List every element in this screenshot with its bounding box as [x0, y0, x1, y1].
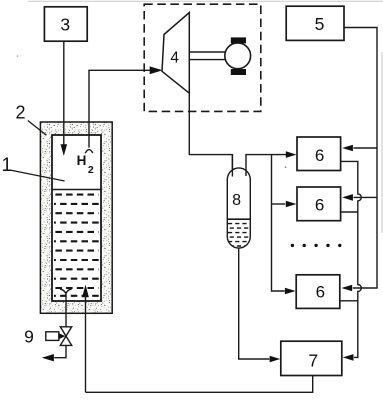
- svg-text:9: 9: [24, 326, 34, 346]
- leader line for 2: [28, 121, 47, 136]
- box 7: [281, 341, 342, 375]
- turbine 4 (trapezoid): [162, 13, 189, 94]
- drain funnel in tank: [60, 289, 72, 294]
- svg-text:2: 2: [88, 164, 94, 176]
- svg-text:6: 6: [316, 283, 325, 302]
- svg-text:4: 4: [170, 49, 179, 66]
- generator brush bottom: [231, 69, 246, 75]
- arrow into turbine: [150, 66, 163, 74]
- arrow into box 7 left: [270, 356, 281, 363]
- turbine exhaust wire to separator: [189, 93, 232, 176]
- output collector wire with hops to box 7: [341, 161, 361, 357]
- svg-text:1: 1: [2, 155, 13, 176]
- arrow into box 6 row 3 left: [285, 288, 296, 295]
- liquid surface line in tank: [52, 189, 101, 191]
- separator right outlet pipe to boxes 6: [246, 155, 286, 176]
- separator vessel 8: [227, 168, 250, 248]
- arrow into box 6 row 1 left: [286, 151, 297, 158]
- separator bottom wire to box 7: [239, 248, 270, 359]
- wire box 6 row 2 output join: [341, 211, 358, 213]
- svg-text:3: 3: [60, 15, 70, 35]
- valve outlet wire with left arrow: [54, 345, 66, 357]
- arrow into box 6 row 2 left: [286, 201, 297, 208]
- shaft (double line): [189, 51, 226, 53]
- H2 gas pickup pipe to turbine: [89, 70, 150, 147]
- return line up into tank with arrow: [82, 285, 89, 298]
- svg-text:8: 8: [232, 192, 241, 209]
- wire from box 5 down right side with branches: [344, 28, 377, 289]
- box 6 row 2: [297, 187, 341, 221]
- svg-text:2: 2: [15, 103, 25, 123]
- box 3 (control unit): [44, 7, 87, 41]
- svg-text:7: 7: [308, 351, 318, 371]
- arrow into box 7 right: [343, 354, 354, 361]
- arrow into box 6 row 3 right: [342, 285, 353, 292]
- tank outer insulated wall (2): [40, 122, 112, 313]
- box 6 row 1: [297, 137, 341, 171]
- drain pipe to valve: [65, 294, 67, 327]
- ellipsis dots: [291, 244, 294, 247]
- arrow into box 6 row 2 right: [342, 194, 353, 201]
- box 6 row 3: [296, 275, 340, 309]
- svg-text:6: 6: [315, 196, 324, 215]
- svg-text:6: 6: [315, 146, 324, 165]
- generator brush top: [231, 37, 246, 43]
- liquid dashes in tank: [54, 195, 99, 296]
- branch to box 6 row 2 right: [354, 196, 378, 198]
- wire box3 to tank with down arrow: [63, 41, 65, 146]
- leader line for 1: [10, 170, 65, 181]
- tank inner vessel (1): [52, 135, 101, 301]
- turbine unit dashed enclosure: [144, 4, 261, 111]
- valve actuator: [46, 332, 59, 341]
- separator liquid surface: [227, 218, 250, 220]
- wire box 7 bottom return: [86, 376, 313, 393]
- branch wire to box 6 row 2 left: [272, 203, 286, 205]
- left distribution wire: [272, 155, 285, 291]
- valve 9 body (bowtie): [60, 327, 71, 336]
- pipe inlet caret: [85, 150, 93, 154]
- svg-text:H: H: [77, 153, 87, 168]
- box 5: [286, 6, 344, 40]
- separator left inlet pipe: [231, 155, 233, 177]
- wire box 6 row 3 output join: [340, 300, 357, 302]
- svg-text:5: 5: [315, 14, 325, 34]
- branch to box 6 row 1 right: [354, 147, 378, 149]
- separator liquid dashes: [226, 224, 251, 246]
- generator circle: [225, 43, 251, 69]
- arrow into box 6 row 1 right: [342, 145, 353, 152]
